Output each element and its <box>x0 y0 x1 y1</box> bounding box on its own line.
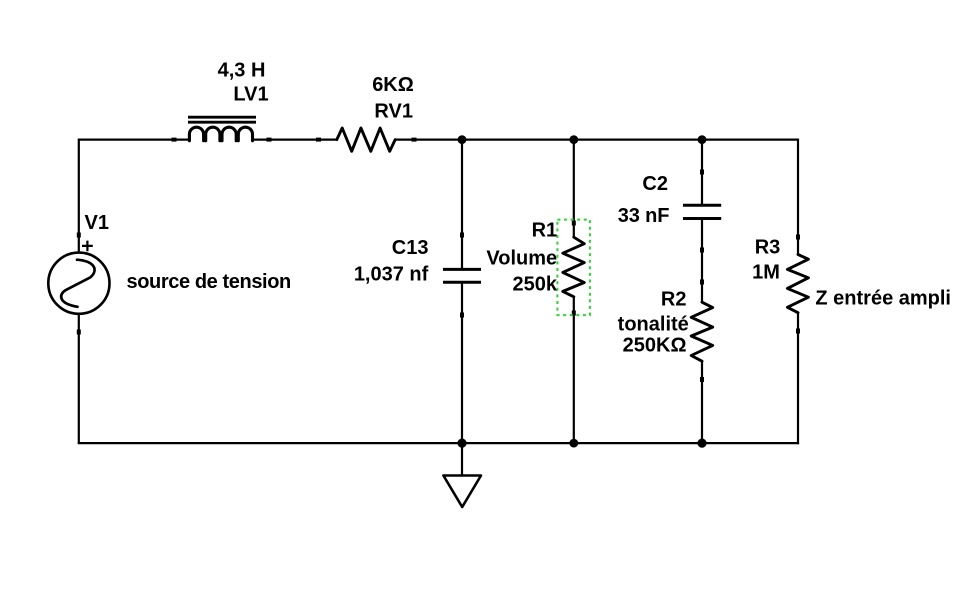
wire R1 column upper <box>573 139 575 239</box>
wire top-left horizontal segment <box>79 140 190 252</box>
junction dot bottom ground node <box>457 439 466 448</box>
wire right vertical above R3 <box>797 139 799 256</box>
pin RV1 right <box>412 138 417 142</box>
resistor R3 zigzag <box>787 255 808 313</box>
pin R3 bottom <box>796 329 800 334</box>
svg-text:C2: C2 <box>642 173 668 195</box>
svg-text:R1: R1 <box>532 219 558 241</box>
resistor R2 zigzag <box>691 302 713 361</box>
pin R1 bottom <box>572 311 576 316</box>
inductor LV1 core bar lower <box>188 121 256 124</box>
wire bottom horizontal <box>78 442 799 444</box>
pin R3 top <box>796 235 800 240</box>
pin C13 top <box>460 233 464 238</box>
ground stub wire <box>461 443 463 476</box>
voltage source V1 sine curve <box>61 260 94 307</box>
svg-text:1M: 1M <box>752 262 780 284</box>
pin V1 top <box>77 233 81 238</box>
pin R1 top <box>572 221 576 226</box>
wire C2 column upper <box>701 139 703 205</box>
wire below R2 <box>701 361 703 443</box>
ground triangle <box>443 476 481 508</box>
wire between inductor and RV1 <box>254 139 337 141</box>
junction dot top C13 <box>458 135 467 144</box>
pin RV1 left <box>316 138 321 142</box>
pin R2 top <box>700 280 704 285</box>
svg-text:R3: R3 <box>755 237 781 259</box>
wire R1 column lower <box>573 297 575 444</box>
svg-text:Z entrée ampli: Z entrée ampli <box>815 288 951 310</box>
R1 selection box (green dashed) <box>557 220 590 316</box>
capacitor C2 top plate <box>683 204 721 207</box>
wire left vertical below source <box>78 314 80 443</box>
pin C13 bottom <box>460 313 464 318</box>
junction dot bottom R2 <box>697 439 706 448</box>
pin C2 bottom <box>700 248 704 253</box>
svg-text:tonalité: tonalité <box>618 314 689 336</box>
V1 plus sign <box>82 241 93 252</box>
wire top from RV1 to right corner <box>395 139 798 141</box>
svg-text:RV1: RV1 <box>374 101 413 123</box>
capacitor C13 bottom plate <box>443 281 481 284</box>
svg-text:33 nF: 33 nF <box>618 205 670 227</box>
svg-text:LV1: LV1 <box>233 84 268 106</box>
inductor LV1 coil <box>189 127 252 140</box>
pin V1 bottom <box>77 330 81 335</box>
pin LV1 left <box>172 138 177 142</box>
junction dot top R1 <box>569 135 578 144</box>
pin LV1 right <box>267 138 272 142</box>
voltage source V1 circle <box>48 253 109 314</box>
svg-text:6KΩ: 6KΩ <box>372 74 414 96</box>
svg-text:Volume: Volume <box>486 248 557 270</box>
svg-text:R2: R2 <box>661 289 687 311</box>
capacitor C13 top plate <box>443 268 481 271</box>
wire right vertical below R3 <box>797 313 799 445</box>
resistor R1 zigzag <box>563 237 585 297</box>
wire C13 column lower <box>461 284 463 444</box>
svg-text:4,3 H: 4,3 H <box>218 59 266 81</box>
svg-text:1,037 nf: 1,037 nf <box>354 263 429 285</box>
pin R2 bottom <box>700 377 704 382</box>
svg-text:source de tension: source de tension <box>127 271 291 293</box>
inductor LV1 core bar upper <box>188 116 256 119</box>
svg-text:250KΩ: 250KΩ <box>623 335 687 357</box>
svg-text:C13: C13 <box>392 237 429 259</box>
resistor RV1 zigzag <box>337 128 395 151</box>
wire between C2 and R2 <box>701 220 703 303</box>
junction dot bottom R1 <box>569 439 578 448</box>
pin C2 top <box>700 170 704 175</box>
junction dot top C2 <box>698 135 707 144</box>
wire C13 column upper <box>461 139 463 269</box>
svg-text:250k: 250k <box>513 273 558 295</box>
svg-text:V1: V1 <box>85 212 109 234</box>
capacitor C2 bottom plate <box>683 217 721 220</box>
